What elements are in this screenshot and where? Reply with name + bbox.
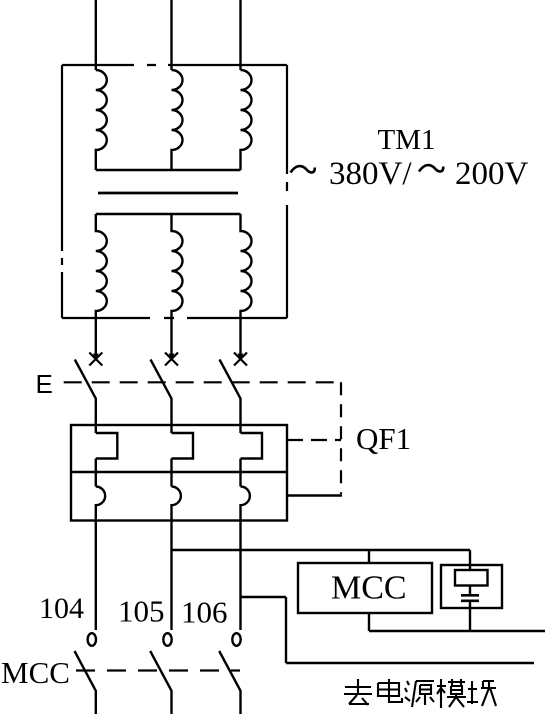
svg-text:380V/: 380V/: [329, 156, 412, 192]
svg-text:105: 105: [118, 594, 165, 629]
svg-text:TM1: TM1: [378, 124, 436, 156]
svg-text:104: 104: [39, 592, 84, 625]
svg-text:E: E: [36, 369, 53, 399]
svg-text:200V: 200V: [455, 156, 529, 192]
svg-text:MCC: MCC: [331, 570, 407, 607]
svg-text:MCC: MCC: [1, 655, 70, 690]
svg-text:106: 106: [181, 595, 228, 630]
svg-text:QF1: QF1: [356, 421, 411, 456]
